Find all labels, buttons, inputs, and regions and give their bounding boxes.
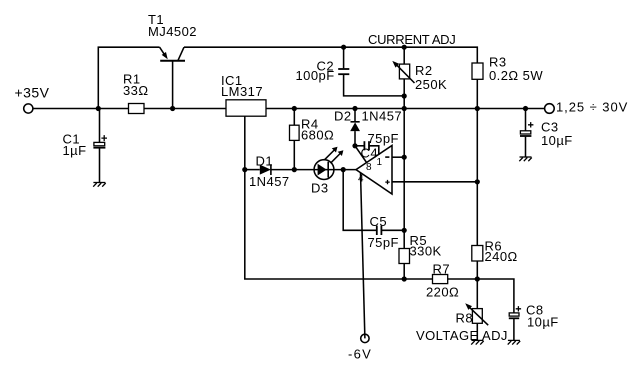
svg-text:4: 4 xyxy=(358,174,364,185)
svg-text:C5: C5 xyxy=(370,214,388,229)
svg-text:250K: 250K xyxy=(415,77,447,92)
svg-text:-6V: -6V xyxy=(348,346,372,361)
svg-text:75pF: 75pF xyxy=(368,235,399,250)
svg-text:1N457: 1N457 xyxy=(249,174,290,189)
svg-text:33Ω: 33Ω xyxy=(123,83,149,98)
svg-text:D3: D3 xyxy=(311,181,329,196)
svg-text:240Ω: 240Ω xyxy=(485,249,518,264)
svg-text:D1: D1 xyxy=(256,154,274,169)
svg-text:330K: 330K xyxy=(410,243,442,258)
svg-text:LM317: LM317 xyxy=(221,84,263,99)
svg-text:10µF: 10µF xyxy=(527,315,559,330)
svg-text:680Ω: 680Ω xyxy=(301,128,334,143)
svg-text:220Ω: 220Ω xyxy=(426,285,459,300)
svg-text:+35V: +35V xyxy=(15,85,50,101)
svg-text:1N457: 1N457 xyxy=(362,108,403,123)
svg-text:75pF: 75pF xyxy=(368,131,399,146)
svg-text:100pF: 100pF xyxy=(296,68,335,83)
svg-text:1µF: 1µF xyxy=(63,143,87,158)
svg-text:8: 8 xyxy=(366,162,372,173)
svg-text:CURRENT ADJ: CURRENT ADJ xyxy=(368,32,455,47)
svg-text:R2: R2 xyxy=(415,63,433,78)
svg-text:1: 1 xyxy=(377,157,383,168)
svg-text:MJ4502: MJ4502 xyxy=(148,24,197,39)
svg-text:10µF: 10µF xyxy=(541,133,573,148)
svg-text:R7: R7 xyxy=(433,261,451,276)
svg-text:D2: D2 xyxy=(334,108,352,123)
svg-text:1,25 ÷ 30V: 1,25 ÷ 30V xyxy=(556,99,628,114)
svg-text:R8: R8 xyxy=(456,311,474,326)
svg-text:C4: C4 xyxy=(361,146,379,161)
svg-text:VOLTAGE ADJ: VOLTAGE ADJ xyxy=(416,328,508,343)
svg-text:0.2Ω 5W: 0.2Ω 5W xyxy=(489,68,543,83)
